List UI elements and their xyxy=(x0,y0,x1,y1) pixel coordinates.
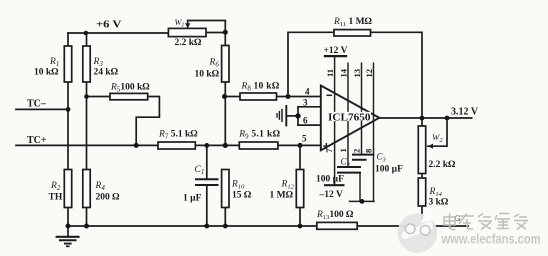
svg-text:2: 2 xyxy=(352,149,362,153)
svg-text:200 Ω: 200 Ω xyxy=(96,193,121,203)
wire R3 column top xyxy=(86,33,88,46)
wire R1 node to R2 top xyxy=(67,110,69,170)
svg-text:100 µF: 100 µF xyxy=(316,175,344,185)
wire TC- stub xyxy=(16,108,68,110)
op-amp label ICL7650 xyxy=(328,111,371,123)
svg-text:12: 12 xyxy=(364,69,374,78)
svg-text:R13100 Ω: R13100 Ω xyxy=(316,210,354,221)
svg-text:100 µF: 100 µF xyxy=(375,165,403,175)
resistor R9 xyxy=(238,130,280,150)
svg-text:4: 4 xyxy=(305,87,310,97)
ground xyxy=(56,237,80,247)
wire W2 wiper xyxy=(428,118,447,146)
svg-text:3: 3 xyxy=(303,98,308,108)
svg-text:1 µF: 1 µF xyxy=(183,194,202,204)
power +12V terminal xyxy=(324,46,348,56)
svg-text:11: 11 xyxy=(325,69,335,77)
watermark chinese characters xyxy=(444,214,528,230)
svg-text:+12 V: +12 V xyxy=(324,46,348,56)
wire R14 bottom xyxy=(421,206,423,226)
resistor R12 xyxy=(270,170,304,208)
wire op-amp output xyxy=(379,117,471,119)
wire IC pin11 to pin7 vertical xyxy=(334,56,336,185)
resistor R13 xyxy=(316,210,357,229)
wire W2 to R14 xyxy=(421,174,423,179)
svg-text:R9 5.1 kΩ: R9 5.1 kΩ xyxy=(238,130,280,141)
wire R8 right to pin 4 xyxy=(277,96,321,98)
op-amp non-inverting mark xyxy=(323,143,329,149)
wire R11 right leg xyxy=(371,32,423,118)
svg-text:R8 10 kΩ: R8 10 kΩ xyxy=(241,82,280,93)
wire +6V rail xyxy=(68,32,168,34)
svg-text:–12 V: –12 V xyxy=(319,190,343,200)
wire R8 left xyxy=(225,96,240,98)
resistor R2 thermistor TH xyxy=(49,170,72,208)
wire R1 column top xyxy=(67,33,69,46)
wire guard cap to bracket xyxy=(286,115,298,117)
svg-text:2.2 kΩ: 2.2 kΩ xyxy=(175,38,203,48)
wire C2 bottom descender xyxy=(359,173,361,202)
potentiometer W2 xyxy=(418,126,456,174)
capacitor C3 xyxy=(375,152,403,175)
resistor R10 xyxy=(222,170,252,208)
wire IC pin14 to pin1 vertical xyxy=(347,63,349,167)
svg-text:10 kΩ: 10 kΩ xyxy=(34,68,59,78)
wire IC pin13 to pin2 vertical xyxy=(361,63,363,154)
wire W1 wiper arm xyxy=(188,21,226,33)
wire pin3-pin6 bracket xyxy=(297,107,299,125)
wire caps bottom bus xyxy=(350,200,375,202)
svg-text:5: 5 xyxy=(302,134,307,144)
potentiometer W1 xyxy=(168,18,206,48)
wire IC pin12 to pin8 vertical xyxy=(373,63,375,201)
svg-text:TH: TH xyxy=(49,193,63,203)
svg-text:3.12 V: 3.12 V xyxy=(451,107,479,118)
svg-text:R5100 kΩ: R5100 kΩ xyxy=(110,83,150,94)
capacitor C2 xyxy=(316,155,374,185)
wire R4 bottom to ground rail xyxy=(86,208,88,227)
wire R6 column xyxy=(224,33,226,146)
guard capacitor symbol xyxy=(277,105,286,127)
svg-text:14: 14 xyxy=(338,68,348,77)
op-amp inverting mark xyxy=(327,94,333,96)
wire TC+ rail xyxy=(16,144,321,146)
op-amp U1 ICL7650 triangle xyxy=(321,86,380,151)
resistor R4 xyxy=(83,170,120,208)
svg-text:2.2 kΩ: 2.2 kΩ xyxy=(429,160,457,170)
wire W1 right to R6 junction xyxy=(206,32,225,34)
resistor R8 xyxy=(240,82,280,101)
svg-text:TC–: TC– xyxy=(27,99,47,110)
wire R11 left leg xyxy=(288,32,334,96)
resistor R1 xyxy=(34,46,72,82)
wire R5 right zigzag to TC+ xyxy=(136,97,159,146)
svg-text:R7 5.1 kΩ: R7 5.1 kΩ xyxy=(158,130,198,141)
resistor R11 xyxy=(333,17,373,36)
resistor R7 xyxy=(158,130,198,150)
svg-text:1: 1 xyxy=(338,148,348,152)
capacitor C1 xyxy=(183,165,219,204)
svg-text:7: 7 xyxy=(324,148,334,153)
resistor R3 xyxy=(83,46,119,82)
svg-text:+6 V: +6 V xyxy=(96,20,122,31)
svg-text:6: 6 xyxy=(303,116,308,126)
wire R1 bottom to TC- node xyxy=(67,82,69,110)
wire ground rail xyxy=(68,225,468,227)
wire pin 3 xyxy=(298,106,321,108)
wire R12 column xyxy=(299,145,301,226)
svg-text:1 MΩ: 1 MΩ xyxy=(270,191,294,201)
wire R2 bottom to ground rail xyxy=(67,208,69,227)
wire ground stub xyxy=(67,226,69,237)
wire R4 column xyxy=(86,97,88,170)
wire R10 column bottom xyxy=(224,208,226,227)
svg-text:www.elecfans.com: www.elecfans.com xyxy=(441,232,541,247)
wire R5 left xyxy=(87,96,111,98)
svg-text:8: 8 xyxy=(364,149,374,153)
resistor R14 xyxy=(418,178,449,208)
wire W2 top xyxy=(421,118,423,126)
wire pin 6 xyxy=(298,124,321,126)
svg-text:10 kΩ: 10 kΩ xyxy=(195,70,220,80)
svg-text:R11 1 MΩ: R11 1 MΩ xyxy=(333,17,373,28)
watermark logo circle xyxy=(398,210,438,253)
wire C1 column xyxy=(206,145,208,226)
power -12V terminal xyxy=(319,185,345,200)
svg-text:13: 13 xyxy=(352,69,362,78)
svg-text:24 kΩ: 24 kΩ xyxy=(94,68,119,78)
svg-text:TC+: TC+ xyxy=(27,135,47,146)
resistor R5 xyxy=(110,83,150,100)
svg-text:3 kΩ: 3 kΩ xyxy=(429,198,449,208)
svg-text:15 Ω: 15 Ω xyxy=(232,191,252,201)
svg-text:ICL7650: ICL7650 xyxy=(328,111,371,123)
wire R3 bottom to R5 node xyxy=(86,82,88,97)
resistor R6 xyxy=(195,46,230,83)
